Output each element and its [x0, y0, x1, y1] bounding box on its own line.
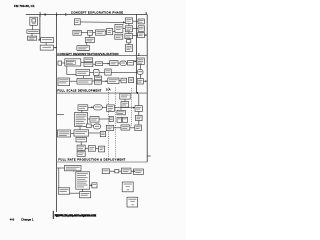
wire G1a-G2 [85, 147, 88, 149]
arrowhead LA-OV1 [91, 106, 93, 108]
sec2 box WB [76, 70, 90, 76]
sec4 box RR3 [133, 169, 143, 174]
wire B2b-B3 [93, 63, 96, 65]
wire WB3-S3 [92, 80, 95, 82]
dashed line mid section 3 [131, 88, 133, 126]
sec2 box B4 [110, 61, 118, 66]
sec3 rail box R3c [135, 125, 142, 131]
sec2 box B2a [84, 58, 93, 62]
sec3 box LA [78, 105, 88, 111]
wire rail stub sec3 [57, 114, 64, 116]
svg-text:Change 1: Change 1 [21, 217, 34, 221]
wire RB2b-R3c [130, 127, 135, 129]
sec2 box S3a [95, 76, 102, 80]
wire R1a-R1b [81, 32, 87, 34]
wire U3 down [80, 142, 82, 145]
svg-text:FULL SCALE DEVELOPMENT: FULL SCALE DEVELOPMENT [57, 89, 101, 93]
wire BX-BX2 [119, 80, 121, 82]
sec1 box A [30, 17, 38, 25]
sec2 box B1 [65, 59, 81, 66]
wire rail-W3 [56, 132, 59, 134]
arrowhead RCb-rail [145, 34, 147, 36]
sec1 box D [41, 38, 54, 43]
sec3 rail box R3a [135, 106, 142, 112]
arrowhead R2c-rail2 [145, 80, 147, 82]
sec1 connector box CE [127, 40, 131, 43]
figure caption word blobs [55, 214, 97, 215]
sec3 box RB2a [106, 125, 113, 130]
sec2 box B2b [84, 63, 93, 67]
sec2 milestone box M2 [137, 58, 144, 64]
sec3 box W3b [74, 130, 89, 136]
wire SR arrow into T [90, 184, 92, 186]
sec3 box D3 [90, 117, 99, 123]
sec3 small box SB3 [100, 131, 105, 136]
sec3 tall box T3 [75, 113, 88, 127]
arrowhead long line [123, 21, 125, 23]
sec4 small box SR [92, 183, 97, 188]
sec3 box T3x [117, 110, 125, 115]
sec1 box M0 [74, 19, 80, 25]
wire TC down [124, 99, 126, 101]
wire SB to B2c [99, 71, 105, 73]
sec4 box W1 [65, 166, 82, 171]
arrowhead E-rail [55, 47, 57, 49]
sec4 box RR2 [122, 168, 132, 174]
blobs sec4 [60, 167, 143, 205]
wire CE-CF [128, 43, 130, 45]
wire T3-D3 [88, 118, 90, 120]
sec4 box BL [58, 188, 69, 194]
wire rail to W1 [57, 167, 65, 169]
wire WB down to WB3 [83, 76, 85, 79]
wire LA down to T3 [81, 110, 83, 112]
wire CC-CE [128, 38, 130, 41]
svg-text:CONCEPT EXPLORATION PHASE: CONCEPT EXPLORATION PHASE [71, 11, 123, 15]
sec3 box TC [120, 93, 130, 99]
blobs sec1 [28, 19, 143, 50]
sec1 column box CC [125, 34, 133, 39]
sec1 box R1a [73, 30, 81, 35]
wire T3 down to W3b [79, 127, 81, 130]
sec2 box B2c [105, 69, 111, 75]
dashed milestone line 3A left [108, 88, 110, 158]
svg-text:FULL RATE PRODUCTION & DEPLOYM: FULL RATE PRODUCTION & DEPLOYMENT [58, 158, 125, 162]
wire OV1-B3A [102, 106, 107, 108]
wire G1a-G1b [80, 150, 82, 151]
svg-text:4-6: 4-6 [10, 217, 15, 221]
wire r0-B1 [61, 62, 64, 64]
sec3 box P1 [117, 117, 122, 122]
sec4 connector d4 [115, 169, 119, 173]
sec3 rail box R3b [136, 115, 143, 120]
sec1 right col RB [138, 26, 144, 32]
wire B1 down to WB [67, 66, 76, 74]
sec2 box BX [108, 78, 119, 84]
sec2 box BX3 [129, 78, 134, 83]
timeline tick left [39, 12, 41, 17]
sec3 row box G1a [77, 145, 85, 150]
wire arrow into M2 [133, 60, 137, 62]
sec1 box R1c [95, 30, 105, 35]
inner right rail [136, 14, 138, 93]
arrowhead into R3a [133, 107, 135, 109]
wire BL-BB [70, 192, 80, 194]
sec3 row box G3 [99, 146, 105, 152]
sec1 box R1b [88, 30, 93, 35]
wire R2c to rail2 [143, 80, 147, 82]
wire R1b-R1c [93, 32, 96, 34]
wire LA-oval arrow [88, 106, 94, 108]
wire B5-B6 [126, 62, 127, 64]
sec4 box Q2 [127, 197, 138, 207]
sec4 row box RR1 [102, 169, 109, 174]
page background [0, 0, 186, 240]
sec2 oval R2b [137, 70, 143, 75]
wire B1-B2 [81, 62, 84, 64]
wire R3a-R3b [138, 111, 140, 115]
sec1 column box CF [125, 45, 132, 52]
wire T down to BB [82, 189, 84, 191]
sec1 box RC3 [115, 34, 123, 39]
sec3 box U3 [76, 137, 87, 142]
sec3 box TC2 [121, 102, 129, 108]
wire long arrow to right cluster [80, 21, 125, 24]
wire D-E [45, 43, 47, 46]
sec2 rail box r0 [58, 61, 62, 65]
wire B4-B5 [118, 62, 120, 64]
sec1 right col RCb [138, 33, 145, 38]
arrowhead into D [39, 39, 41, 41]
sec3 row box G1b [77, 151, 85, 156]
phase 4 underline [57, 161, 148, 163]
wire B3-B4 [103, 63, 110, 65]
wire RCb to rail2 [133, 34, 148, 36]
sec2 oval B5 [120, 61, 126, 66]
wire B2c to R2b [111, 71, 137, 73]
sec3 row box G2 [88, 146, 95, 152]
wire CA-RA [133, 20, 139, 22]
sec1 box S2 [77, 45, 90, 50]
sec3 box RB2b [121, 125, 130, 130]
svg-text:FM 700-80, C1: FM 700-80, C1 [14, 4, 35, 8]
sec4 box Q1 [122, 182, 133, 192]
wire W1 down to T [73, 171, 75, 172]
arrowhead into M2 [135, 60, 137, 62]
arrowhead B3-B4 [108, 63, 110, 65]
sec3 small box D3b [109, 116, 113, 121]
figure caption change bar [53, 211, 54, 219]
sec1 box RC1 [107, 29, 113, 35]
sec4 box BB [80, 192, 91, 198]
sec1 box RC2 [115, 24, 123, 32]
arrowhead S3b-BX [106, 80, 108, 82]
wire down to BL [58, 168, 60, 188]
blobs sec2 [59, 59, 143, 83]
sec2 box B6 [128, 61, 134, 66]
wire TB2-WB3 [70, 80, 77, 82]
wire S1 down [85, 42, 87, 45]
wire W3-W3b [71, 132, 74, 134]
wire RB2a-RB2b [114, 127, 121, 129]
svg-text:Figure 4-8. Life cycle system: Figure 4-8. Life cycle system management… [55, 214, 97, 217]
arrowhead SR into T [90, 184, 92, 186]
phase 1 timeline [26, 13, 147, 15]
sec1 box E [40, 45, 53, 50]
arrowhead into RR3 [133, 170, 135, 172]
svg-text:3A: 3A [106, 87, 111, 91]
sec2 box R2c [137, 79, 143, 84]
sec2 box SB [94, 70, 100, 76]
milestone 4 tick [147, 155, 151, 157]
timeline tick 4 [39, 14, 42, 40]
wire A-B [32, 25, 34, 30]
dashed milestone line 3A right [115, 88, 117, 158]
sec3 box P2 [122, 117, 127, 122]
wire RC1-RC2 [113, 31, 115, 33]
sec2 box WB3 [77, 78, 92, 84]
wire rail tick down to R3a [138, 94, 140, 106]
wire R3b-R3c [138, 121, 140, 125]
wire RR2-RR3 arrow [131, 170, 133, 172]
sec2 box TB2 [58, 78, 70, 86]
wire CB-CC [128, 32, 130, 34]
sec4 list box T [76, 172, 90, 189]
wire RC2 right [123, 28, 125, 30]
wire CB-RB [133, 27, 139, 29]
sec3 box W3 [58, 130, 71, 137]
sec3 small box E3 [87, 124, 92, 128]
wire W3b to SB3 [89, 132, 101, 134]
sec1 column box CA [125, 18, 132, 24]
wire CA-CB [128, 23, 130, 25]
wire B3A to R3a [114, 107, 135, 109]
wire R1b down [89, 35, 91, 37]
sec1 box B [27, 30, 40, 34]
sec3 box B3A [107, 105, 115, 112]
sec2 box S3b [95, 80, 102, 84]
sec1 box C [27, 36, 36, 40]
wire T3x up [120, 108, 122, 111]
sec3 oval OV2 [94, 124, 101, 129]
wire R1c to RC1 [105, 31, 106, 33]
left rail [56, 14, 58, 212]
sec1 right col RA [138, 19, 144, 24]
wire d4-RR2 [119, 170, 122, 172]
outer right rail [146, 14, 148, 162]
wire D3-D3b [99, 118, 109, 120]
sec2 box BX2 [121, 78, 127, 83]
sec2 box B3 [96, 62, 103, 66]
phase 2 underline [57, 55, 148, 57]
wire M2 down [140, 64, 142, 69]
phase 3 underline [57, 92, 148, 94]
wire G2-G3 [96, 148, 99, 150]
timeline tick 3 [65, 13, 67, 16]
wire RR1-d4 [110, 170, 115, 172]
wire R2b-R2c [139, 74, 141, 78]
sec1 column box CB [125, 26, 132, 32]
wire E3-OV2 [91, 125, 93, 127]
sec3 oval OV1 [94, 105, 103, 110]
svg-text:CONCEPT DEMONSTRATION/VALIDATI: CONCEPT DEMONSTRATION/VALIDATION [57, 52, 118, 56]
blobs sec3 [59, 95, 141, 155]
sec1 box S1 [85, 38, 94, 43]
wire B-C [31, 33, 33, 36]
wire WB-SB [90, 71, 94, 73]
wire S3b arrow right [102, 80, 108, 82]
wire E to left rail [54, 47, 57, 49]
timeline tick 2 [55, 13, 57, 17]
